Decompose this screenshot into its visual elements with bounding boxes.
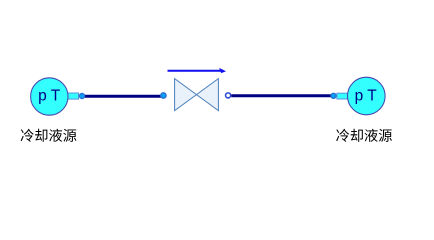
wire: left pipe from source B1 to valve [80, 95, 163, 98]
source B2: coolant source sensor circle (p T) [348, 77, 386, 115]
node: pipe end dot at valve inlet [161, 93, 166, 98]
left source flange stub [67, 93, 79, 99]
label: 冷却液源 (coolant source) under right circle [336, 129, 392, 142]
svg-text:p T: p T [355, 87, 378, 104]
right source flange stub [337, 93, 348, 99]
valve V1: butterfly/bowtie valve body [175, 79, 219, 111]
svg-text:p T: p T [38, 87, 61, 104]
node: open connector at valve outlet [226, 93, 231, 98]
source B1: coolant source sensor circle (p T) [31, 78, 68, 115]
wire: right pipe from open connector to source B2 [231, 94, 333, 97]
node: left source connector dot [79, 93, 84, 98]
label: 冷却液源 (coolant source) under left circle [21, 129, 77, 142]
flow direction arrow above valve [168, 68, 227, 73]
node: right source connector dot [331, 93, 336, 98]
